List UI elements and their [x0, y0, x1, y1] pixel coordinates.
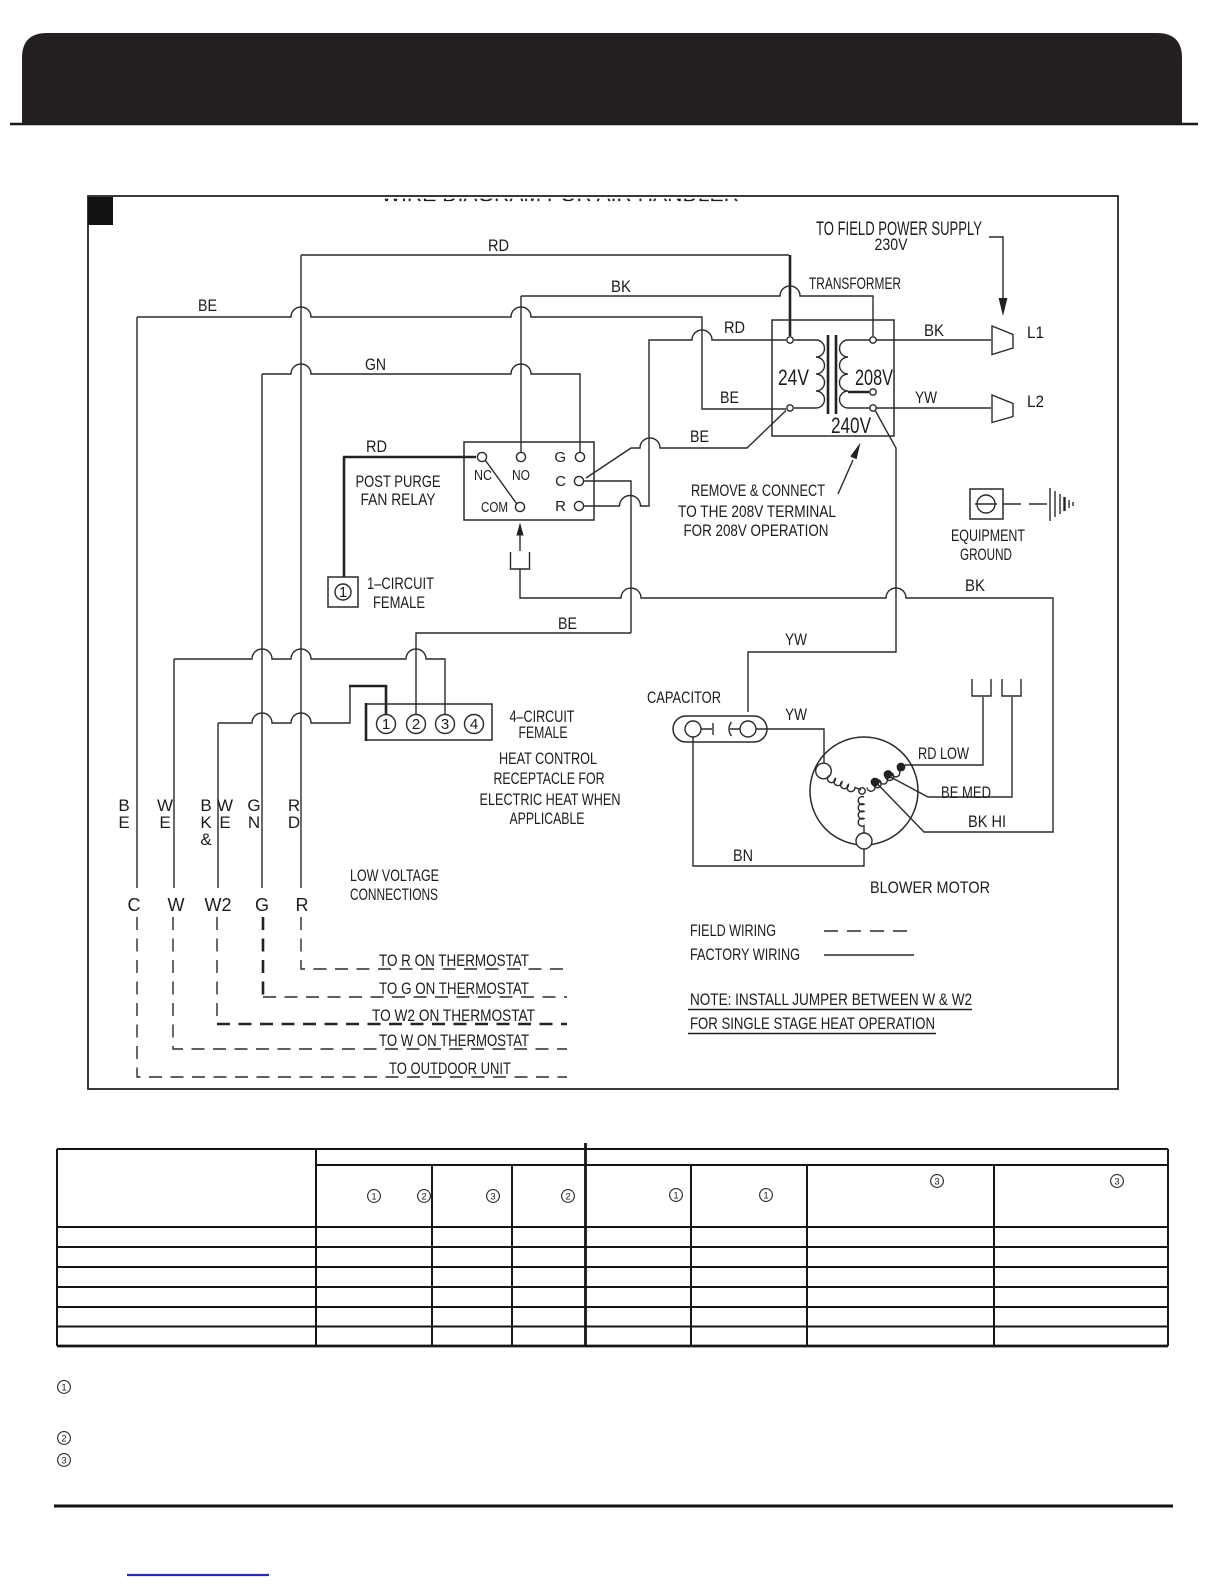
- svg-text:4: 4: [470, 716, 478, 733]
- svg-text:YW: YW: [785, 705, 807, 724]
- wire W2 riser: [217, 723, 219, 888]
- G_TABLE: [57, 1143, 1168, 1346]
- capacitor plates: [701, 722, 740, 736]
- svg-text:RD: RD: [724, 318, 745, 337]
- svg-text:3: 3: [934, 1177, 939, 1188]
- svg-text:TO R ON THERMOSTAT: TO R ON THERMOSTAT: [379, 951, 529, 970]
- motor winding arm right: [867, 766, 903, 791]
- field wire C to outdoor unit: [137, 917, 567, 1077]
- table center divider: [584, 1143, 587, 1346]
- svg-text:CAPACITOR: CAPACITOR: [647, 688, 721, 707]
- svg-text:GROUND: GROUND: [960, 545, 1012, 564]
- svg-text:C: C: [555, 473, 566, 490]
- transformer terminal 24V hot: [787, 337, 793, 343]
- wire BE left riser: [136, 317, 138, 888]
- svg-text:2: 2: [61, 1434, 66, 1445]
- transformer U1 box: [772, 320, 894, 436]
- footnote mark 3b col: [931, 1175, 944, 1188]
- svg-text:TRANSFORMER: TRANSFORMER: [809, 274, 901, 293]
- svg-text:1–CIRCUIT: 1–CIRCUIT: [367, 574, 434, 593]
- wire BK top (relay NO to transformer 240V hot): [521, 286, 873, 336]
- table bottom border: [57, 1345, 1168, 1348]
- svg-text:C: C: [128, 895, 141, 915]
- wire BN: [693, 737, 864, 866]
- transformer primary coil 24V: [794, 340, 825, 408]
- clipped title fragments: [381, 181, 739, 206]
- motor terminal aux: [816, 763, 832, 779]
- svg-text:RD: RD: [488, 236, 509, 255]
- wire W bus to pin3 (hops GN,RD,BE risers): [174, 649, 445, 714]
- svg-text:L1: L1: [1027, 323, 1044, 342]
- footnote 1: [58, 1381, 71, 1394]
- wire W2 bus (hops GN,RD risers): [218, 686, 350, 723]
- wire BE MED: [891, 697, 1013, 797]
- footer rule: [54, 1505, 1173, 1508]
- 1-circuit female box: [328, 577, 358, 607]
- table header bottom: [57, 1226, 1168, 1228]
- relay box: [464, 442, 594, 520]
- wire YW to L2: [876, 407, 991, 409]
- 1-circuit female pin 1: [335, 584, 351, 600]
- svg-text:G: G: [554, 449, 566, 466]
- svg-text:3: 3: [1114, 1177, 1119, 1188]
- capacitor terminal right: [740, 721, 756, 737]
- svg-text:FEMALE: FEMALE: [373, 593, 425, 612]
- wire field power arrow: [989, 237, 1003, 298]
- svg-text:NC: NC: [474, 467, 492, 484]
- diagram frame: [88, 196, 1118, 1089]
- header rule: [10, 123, 1198, 125]
- svg-text:RD LOW: RD LOW: [918, 744, 969, 763]
- wire BK from COM plug to blower motor HI (hops C drop and YW drop): [520, 569, 1053, 832]
- capacitor C1 body: [673, 716, 767, 742]
- svg-text:BLOWER MOTOR: BLOWER MOTOR: [870, 878, 990, 897]
- 4-circuit female box: [366, 704, 492, 740]
- footnote mark 1 col: [368, 1175, 1124, 1203]
- COM plug receptacle: [511, 552, 530, 569]
- wire GN left riser: [261, 374, 263, 888]
- svg-text:TO W2 ON THERMOSTAT: TO W2 ON THERMOSTAT: [372, 1006, 535, 1025]
- table row lines: [57, 1247, 1168, 1327]
- svg-text:R: R: [555, 498, 566, 515]
- footnote mark 3c col: [1111, 1175, 1124, 1188]
- svg-text:NOTE: INSTALL JUMPER BETWEEN W: NOTE: INSTALL JUMPER BETWEEN W & W2: [690, 990, 972, 1009]
- 4-circuit pin 1: [377, 715, 396, 734]
- svg-text:FOR SINGLE STAGE HEAT OPERATIO: FOR SINGLE STAGE HEAT OPERATION: [690, 1014, 935, 1033]
- footnote mark 2b col: [562, 1190, 575, 1203]
- wire relay C down-drop to BE bus: [584, 481, 631, 633]
- svg-text:1: 1: [382, 716, 390, 733]
- svg-text:24V: 24V: [778, 365, 809, 390]
- footnote 3: [58, 1454, 71, 1467]
- wire RD feed drop to transformer primary: [789, 255, 792, 336]
- transformer terminal 240V hot: [870, 337, 876, 343]
- field wire R to thermostat: [301, 917, 567, 969]
- wire BE main (hops RD riser and NO riser, to transformer 24V low terminal): [137, 307, 786, 409]
- svg-text:BE: BE: [720, 388, 739, 407]
- svg-text:TO THE 208V TERMINAL: TO THE 208V TERMINAL: [678, 502, 836, 521]
- motor tap dot low: [871, 778, 880, 787]
- blower motor M1 body: [810, 737, 918, 845]
- svg-text:APPLICABLE: APPLICABLE: [510, 809, 585, 828]
- black corner square: [88, 197, 113, 225]
- transformer core: [827, 335, 830, 414]
- svg-text:208V: 208V: [855, 365, 893, 390]
- svg-text:&: &: [200, 830, 212, 849]
- svg-text:2: 2: [421, 1192, 426, 1203]
- svg-text:E: E: [159, 813, 170, 832]
- G_FOOTNOTES: [58, 1381, 71, 1467]
- svg-text:TO OUTDOOR UNIT: TO OUTDOOR UNIT: [389, 1059, 511, 1078]
- svg-text:BK: BK: [611, 277, 632, 296]
- 4-circuit pin 2: [407, 715, 426, 734]
- 4-circuit female thick left edge: [365, 703, 368, 741]
- svg-text:TO W ON THERMOSTAT: TO W ON THERMOSTAT: [379, 1031, 529, 1050]
- svg-text:W2: W2: [205, 895, 232, 915]
- relay terminal G: [575, 452, 584, 461]
- svg-text:BN: BN: [733, 846, 753, 865]
- footnote mark 1c col: [760, 1189, 773, 1202]
- svg-text:POST PURGE: POST PURGE: [356, 472, 441, 491]
- relay switch blade NC-COM: [486, 461, 517, 504]
- 4-circuit pin 3: [436, 715, 455, 734]
- relay terminal COM: [515, 502, 524, 511]
- svg-text:3: 3: [61, 1456, 66, 1467]
- svg-text:ELECTRIC HEAT WHEN: ELECTRIC HEAT WHEN: [480, 790, 621, 809]
- wire RD drop to 1-circuit female: [343, 457, 346, 577]
- L1 lug: [992, 326, 1013, 355]
- wire relay C diagonal to BE wire toward transformer: [586, 411, 786, 479]
- svg-text:1: 1: [371, 1192, 376, 1203]
- svg-text:YW: YW: [785, 630, 807, 649]
- motor winding arm down: [858, 797, 864, 833]
- wire RD to relay NC: [343, 456, 476, 459]
- G_DIAGRAM: [88, 181, 1118, 1089]
- wire RD top bus: [301, 254, 789, 256]
- svg-text:REMOVE & CONNECT: REMOVE & CONNECT: [691, 481, 825, 500]
- wire W riser: [173, 659, 175, 888]
- table verticals: [57, 1149, 1168, 1346]
- ground symbol: [1049, 488, 1051, 521]
- svg-text:1: 1: [763, 1191, 768, 1202]
- svg-text:BE: BE: [558, 614, 577, 633]
- footnote mark 1b col: [670, 1189, 683, 1202]
- motor star point: [859, 788, 865, 794]
- wire BK to L1: [876, 339, 991, 341]
- svg-text:BE MED: BE MED: [941, 783, 991, 802]
- field wire W2 to thermostat: [216, 917, 218, 1024]
- motor terminal common: [856, 833, 872, 849]
- ground lead: [1003, 503, 1047, 505]
- wire GN (to relay G terminal): [262, 364, 580, 452]
- svg-text:E: E: [118, 813, 129, 832]
- plug lug RD: [972, 679, 991, 696]
- table top border: [57, 1148, 1168, 1150]
- footnote 2: [58, 1432, 71, 1445]
- svg-text:FIELD WIRING: FIELD WIRING: [690, 921, 776, 940]
- field wire W to thermostat: [173, 917, 567, 1049]
- svg-text:GN: GN: [365, 355, 386, 374]
- transformer secondary coil: [840, 340, 871, 408]
- svg-text:BK: BK: [924, 321, 945, 340]
- svg-text:LOW VOLTAGE: LOW VOLTAGE: [350, 866, 439, 885]
- svg-text:1: 1: [339, 584, 347, 601]
- plug lug BE: [1002, 679, 1021, 696]
- L2 lug: [992, 395, 1013, 423]
- svg-text:TO G ON THERMOSTAT: TO G ON THERMOSTAT: [379, 979, 529, 998]
- svg-text:1: 1: [673, 1191, 678, 1202]
- relay terminal NC: [477, 452, 486, 461]
- wire relay R to transformer 24V hot (hops C drop, BE drop): [584, 330, 787, 506]
- svg-text:NO: NO: [512, 467, 530, 484]
- table header strip line: [316, 1164, 1168, 1166]
- svg-text:BK HI: BK HI: [968, 812, 1006, 831]
- svg-text:R: R: [296, 895, 309, 915]
- motor tap dot high: [897, 763, 906, 772]
- relay terminal NO: [516, 452, 525, 461]
- equipment ground screw box: [970, 489, 1003, 519]
- svg-text:3: 3: [490, 1192, 495, 1203]
- svg-text:BE: BE: [690, 427, 709, 446]
- capacitor terminal left: [685, 721, 701, 737]
- transformer terminal 240V common: [870, 405, 876, 411]
- svg-text:HEAT CONTROL: HEAT CONTROL: [499, 749, 597, 768]
- svg-text:240V: 240V: [831, 413, 871, 438]
- svg-text:G: G: [255, 895, 269, 915]
- svg-text:FEMALE: FEMALE: [519, 723, 568, 742]
- footnote mark 3 col: [487, 1190, 500, 1203]
- svg-text:EQUIPMENT: EQUIPMENT: [951, 526, 1025, 545]
- relay terminal R: [574, 501, 583, 510]
- svg-text:1: 1: [61, 1383, 66, 1394]
- svg-text:2: 2: [412, 716, 420, 733]
- svg-text:2: 2: [565, 1192, 570, 1203]
- 4-circuit pin 4: [465, 715, 484, 734]
- svg-text:YW: YW: [915, 388, 937, 407]
- wire YW transformer to capacitor (hopped by BK): [748, 411, 896, 712]
- wire NO riser: [520, 296, 522, 452]
- svg-text:FACTORY WIRING: FACTORY WIRING: [690, 945, 800, 964]
- svg-text:BK: BK: [965, 576, 986, 595]
- relay terminal C: [574, 476, 583, 485]
- svg-text:230V: 230V: [875, 235, 909, 254]
- wire YW capacitor to motor: [756, 729, 824, 765]
- header black banner: [22, 33, 1182, 124]
- svg-text:N: N: [248, 813, 260, 832]
- svg-text:FAN RELAY: FAN RELAY: [361, 490, 436, 509]
- wire BE lower bus to pin2: [416, 633, 631, 714]
- field wire G to thermostat: [262, 917, 265, 997]
- svg-text:D: D: [288, 813, 300, 832]
- svg-text:RD: RD: [366, 437, 387, 456]
- svg-text:W: W: [168, 895, 185, 915]
- svg-text:CONNECTIONS: CONNECTIONS: [350, 885, 438, 904]
- wire RD LOW: [905, 697, 983, 765]
- footnote mark 2 col: [418, 1190, 431, 1203]
- transformer 208V tap lead: [848, 391, 869, 394]
- svg-text:RECEPTACLE FOR: RECEPTACLE FOR: [494, 769, 605, 788]
- motor tap dot med: [884, 770, 893, 779]
- motor winding arm left: [828, 776, 861, 792]
- transformer terminal 24V common: [787, 405, 793, 411]
- svg-text:E: E: [219, 813, 230, 832]
- svg-text:3: 3: [441, 716, 449, 733]
- svg-text:L2: L2: [1027, 392, 1044, 411]
- arrow to 240V terminal: [838, 460, 853, 494]
- wire W2 jog to pin1: [349, 686, 386, 714]
- arrow to COM plug: [519, 534, 521, 551]
- transformer terminal 208V tap: [870, 389, 876, 395]
- svg-text:COM: COM: [481, 499, 508, 516]
- footer link underline: [127, 1574, 269, 1576]
- svg-text:BE: BE: [198, 296, 217, 315]
- wire RD left riser: [300, 255, 302, 888]
- svg-text:FOR 208V OPERATION: FOR 208V OPERATION: [684, 521, 829, 540]
